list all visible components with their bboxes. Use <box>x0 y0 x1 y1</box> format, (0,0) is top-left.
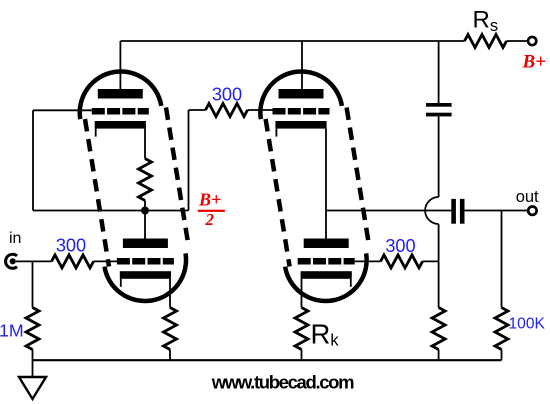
svg-text:100K: 100K <box>509 316 546 333</box>
terminal B+ <box>528 37 536 45</box>
wire divider to rail <box>438 350 440 361</box>
triode V2b cathode stub <box>350 279 352 287</box>
wire V2b grid to 300 <box>355 260 381 262</box>
svg-text:B+: B+ <box>522 52 547 73</box>
wire Rs to B+ terminal <box>507 40 528 42</box>
triode V2b cathode <box>301 271 352 279</box>
svg-text:300: 300 <box>385 236 415 256</box>
wire 1M to ground <box>32 350 34 378</box>
node junction dot <box>141 207 149 215</box>
wire capacitor branch from rail <box>438 41 440 103</box>
resistor R6 300 right <box>381 255 423 268</box>
wire left plate lead <box>119 41 121 89</box>
svg-text:2: 2 <box>205 210 215 229</box>
wire divider top <box>438 261 440 307</box>
wire V1b cathode lead <box>169 279 171 308</box>
svg-text:out: out <box>516 188 539 206</box>
wire node B+/2 line <box>33 210 189 212</box>
wire hop over out wire <box>425 197 439 224</box>
svg-text:300: 300 <box>56 235 86 255</box>
svg-text:Rs: Rs <box>473 7 499 36</box>
svg-text:300: 300 <box>212 85 242 105</box>
resistor R7 divider <box>432 308 445 350</box>
resistor Rk <box>295 308 308 350</box>
wire V1a grid <box>33 109 92 111</box>
wire R1 to node <box>144 201 146 211</box>
wire bottom rail <box>33 359 502 361</box>
resistor R2 300 <box>206 104 248 117</box>
tube V2 envelope <box>260 71 368 301</box>
wire top B+ rail <box>120 40 464 42</box>
wire V1a cathode lead <box>144 129 146 159</box>
resistor Rs <box>465 35 507 48</box>
wire cap to out terminal <box>465 210 528 212</box>
svg-text:B+: B+ <box>198 190 221 210</box>
triode V1b plate <box>123 239 168 249</box>
wire 300 to divider <box>423 260 439 262</box>
capacitor C1 top <box>426 103 452 116</box>
wire 100K to rail <box>501 350 503 361</box>
resistor R1 internal <box>139 159 152 201</box>
wire R5 to rail <box>169 350 171 361</box>
tube V1 envelope <box>80 71 188 301</box>
triode V1a grid <box>92 108 149 115</box>
wire right plate lead <box>301 41 303 89</box>
wire out from V2 node <box>326 210 451 212</box>
triode V2b grid <box>298 258 355 265</box>
wire Rk to rail <box>301 350 303 361</box>
svg-text:www.tubecad.com: www.tubecad.com <box>211 372 354 393</box>
wire V2a cathode lead to V2b plate <box>325 129 327 239</box>
wire in tee down <box>32 261 34 307</box>
terminal in jack <box>6 254 17 268</box>
triode V2a cathode stub <box>275 129 277 137</box>
wire V2b cathode lead <box>301 279 303 308</box>
triode V1a cathode <box>95 121 146 129</box>
triode V1a plate <box>98 89 143 99</box>
triode V1b cathode <box>120 271 171 279</box>
svg-text:Rk: Rk <box>311 319 340 350</box>
resistor R8 100K <box>495 308 508 350</box>
triode V1a cathode stub <box>95 129 97 137</box>
triode V1b grid <box>117 258 174 265</box>
wire V1b plate lead <box>144 211 146 239</box>
label B+/2 <box>198 190 225 230</box>
terminal out <box>528 207 536 215</box>
triode V2a plate <box>279 89 324 99</box>
resistor R5 cathode V1b <box>164 308 177 350</box>
wire to 300 grid stopper <box>189 109 206 111</box>
triode V2b plate <box>304 239 349 249</box>
wire below capacitor C1 <box>438 116 440 197</box>
triode V2a cathode <box>275 121 326 129</box>
resistor R3 300 input <box>52 255 94 268</box>
wire left feedback vertical <box>32 110 34 210</box>
triode V1b cathode stub <box>120 279 122 287</box>
wire 300 to V2a grid <box>248 109 273 111</box>
resistor R4 1M <box>26 308 39 350</box>
svg-text:1M: 1M <box>0 320 24 340</box>
wire in to 300 <box>16 260 52 262</box>
wire 300 to V1b grid <box>94 260 117 262</box>
wire interstage vertical <box>188 110 190 211</box>
wire hop to node <box>438 224 440 261</box>
capacitor C2 coupling <box>451 199 464 224</box>
svg-text:in: in <box>9 230 21 247</box>
ground <box>19 377 46 399</box>
triode V2a grid <box>273 108 330 115</box>
wire 100K top <box>501 211 503 308</box>
